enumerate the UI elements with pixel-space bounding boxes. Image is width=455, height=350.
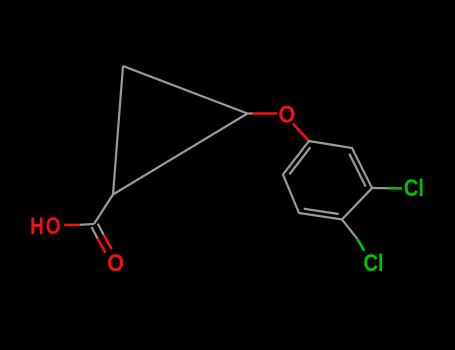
- benzene ring of 3,4-dichlorophenyl: [283, 141, 372, 220]
- svg-text:Cl: Cl: [404, 175, 424, 202]
- bond ring C4 to Cl, green half: [357, 239, 364, 251]
- cyclopropane ring side C1-C3: [113, 66, 123, 195]
- bond ring C4 to Cl, gray half: [342, 220, 357, 239]
- svg-text:HO: HO: [30, 213, 62, 240]
- bond ring C3 to Cl, green half: [388, 187, 402, 190]
- aromatic inner double bond C6-C1: [289, 147, 310, 174]
- bond ring C3 to Cl, gray half: [372, 187, 388, 189]
- double bond C=O line 2, red half: [104, 235, 112, 249]
- bond HO to acid carbon, gray half: [80, 223, 94, 226]
- bond HO to acid carbon, red half: [64, 224, 79, 227]
- svg-text:O: O: [107, 250, 124, 277]
- bond acid carbon to cyclopropane C1: [94, 195, 113, 225]
- aromatic inner double bond C2-C3: [349, 154, 365, 187]
- cyclopropane ring side C3-C2: [123, 66, 247, 114]
- bond cyclopropane C2 to ether O, red half: [253, 112, 278, 115]
- cyclopropane ring side C1-C2: [113, 114, 247, 195]
- bond ether O to ring C1 (red): [293, 124, 309, 141]
- aromatic inner double bond C4-C5: [304, 209, 339, 214]
- double bond C=O line 1, gray half: [92, 227, 98, 238]
- bond cyclopropane C2 to ether O, gray half: [247, 112, 253, 114]
- double bond C=O line 1, red half: [97, 238, 105, 252]
- svg-text:Cl: Cl: [364, 250, 384, 277]
- double bond C=O line 2, gray half: [98, 224, 104, 235]
